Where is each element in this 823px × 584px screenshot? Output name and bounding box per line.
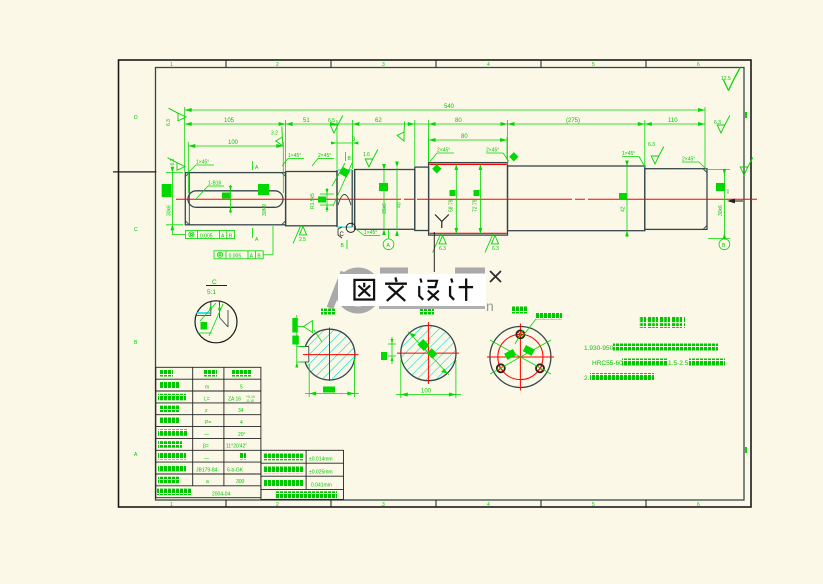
svg-text:3: 3 [382, 502, 385, 508]
watermark text: she [419, 279, 439, 301]
B-B red crosshair [397, 352, 459, 354]
view I hole top [516, 330, 524, 338]
shaft groove section S3 [336, 170, 338, 227]
roughness flag at 540 dim start [169, 108, 187, 121]
roughness check right top [717, 116, 730, 134]
svg-text:2: 2 [276, 502, 279, 508]
svg-text:5: 5 [592, 62, 595, 68]
svg-text:±0.014mm: ±0.014mm [309, 456, 333, 462]
black vertical watermark line [433, 232, 435, 272]
svg-text:540: 540 [444, 104, 455, 110]
chamfer label 1x45 S1 left [187, 165, 214, 174]
svg-text:4: 4 [487, 62, 490, 68]
chamfer 1x45 below groove [356, 229, 380, 236]
svg-text:42: 42 [621, 206, 627, 212]
svg-text:300: 300 [236, 479, 245, 485]
dimension 100 keyway [188, 144, 283, 148]
watermark close X [490, 271, 501, 282]
green cross lines at groove S3 [332, 163, 352, 206]
chamfer 2x45 gear right [486, 153, 509, 162]
shaft section S1 [185, 173, 285, 225]
S8 dia dim right [708, 169, 730, 239]
dimension chain row [185, 122, 705, 126]
svg-text:(275): (275) [566, 118, 580, 124]
svg-text:30k6: 30k6 [718, 205, 724, 216]
shaft section S4b [415, 167, 429, 230]
title tech requirements [639, 317, 685, 328]
svg-text:110: 110 [668, 118, 678, 124]
shaft section S6 [508, 166, 645, 231]
svg-text:5: 5 [592, 502, 595, 508]
zone numbers top [170, 62, 700, 68]
B-B bottom dim [396, 360, 461, 398]
svg-text:HRC55-60,: HRC55-60, [592, 360, 625, 367]
A-A label [321, 309, 335, 315]
chamfer label 1x45 S2 [282, 159, 304, 167]
svg-text:51: 51 [303, 118, 310, 124]
row 8 [158, 453, 186, 460]
green diamond mark gear right [509, 152, 518, 161]
keyway end label blob [258, 184, 269, 195]
tolerance frame 2 [214, 226, 273, 259]
svg-text:1×45°: 1×45° [196, 160, 209, 166]
svg-text:6.3: 6.3 [714, 120, 721, 126]
shaft section S2 [286, 172, 337, 226]
B-B left small marks [388, 337, 396, 364]
B-B circle hatched [401, 326, 455, 380]
roughness check S8 top [651, 147, 664, 165]
section tick A below shaft [252, 228, 254, 238]
svg-text:1×45°: 1×45° [622, 151, 635, 157]
sec row 3 [264, 480, 303, 487]
view I hole lower left [497, 364, 505, 372]
svg-text:5:1: 5:1 [207, 289, 216, 296]
rotated label phi30 left [162, 184, 172, 197]
section tick b below [346, 240, 348, 249]
svg-text:30k6: 30k6 [167, 205, 173, 216]
view I red crosshair [487, 356, 554, 358]
svg-text:β=: β= [203, 444, 209, 450]
view I leader 3-M10 [522, 319, 562, 337]
roughness check below S5 right [485, 234, 499, 253]
roughness check above S3 [365, 150, 378, 168]
A-A circle hatched [305, 330, 355, 380]
view I label [512, 307, 527, 314]
groove cyan bottom line [338, 226, 353, 228]
svg-text:62: 62 [375, 118, 382, 124]
zone tick marks bottom border [226, 500, 646, 508]
datum balloon circled [383, 239, 394, 250]
svg-text:80: 80 [455, 118, 462, 124]
dimension 3 groove width [331, 142, 358, 145]
groove cyan top line [338, 169, 353, 171]
svg-text:6.3: 6.3 [170, 158, 176, 165]
svg-text:P=: P= [205, 420, 211, 426]
chamfer 2x45 gear left [430, 153, 454, 162]
svg-text:—: — [204, 432, 209, 438]
svg-text:0.005: 0.005 [200, 233, 213, 239]
detail C circle marker [346, 223, 355, 232]
watermark white box [338, 274, 486, 306]
view I direction arrow black [727, 199, 743, 204]
keyway width dim inside S1 [229, 185, 232, 213]
chamfer 1x45 S6 right [622, 157, 645, 168]
table header row [159, 370, 173, 377]
S6 dia dim [625, 161, 629, 237]
detail C green marks [197, 303, 223, 336]
svg-text:58.79: 58.79 [449, 199, 455, 212]
tolerance frame 1 [172, 226, 234, 239]
svg-text:2004-04: 2004-04 [212, 491, 231, 497]
svg-text:2: 2 [276, 62, 279, 68]
zone letters left [134, 115, 138, 458]
svg-text:6.3: 6.3 [648, 142, 655, 148]
outer border frame [119, 60, 752, 507]
row 7 [158, 441, 182, 448]
svg-text:72.79: 72.79 [473, 199, 479, 212]
watermark text: ji [450, 279, 473, 301]
grey text bottom under box [379, 304, 485, 310]
svg-text:2×45°: 2×45° [486, 148, 499, 154]
detail C circle [195, 301, 237, 343]
svg-text:a: a [206, 479, 209, 485]
svg-text:-0.10: -0.10 [246, 399, 254, 403]
svg-text:1.930-950: 1.930-950 [584, 345, 614, 352]
svg-text:12.5: 12.5 [721, 76, 731, 82]
row 2 module [159, 382, 180, 389]
svg-text:80: 80 [461, 134, 468, 140]
green diamond mark gear left [432, 164, 441, 173]
view I outer circle [490, 327, 551, 388]
svg-text:L=: L= [204, 396, 210, 402]
centering mark left border [113, 171, 156, 173]
row 4 [159, 406, 180, 413]
view I hole lower right [536, 364, 544, 372]
B-B label [420, 309, 434, 315]
zone tick right border green [745, 447, 747, 453]
roughness check below S5 left [433, 234, 447, 253]
detail C cyan line [197, 312, 211, 314]
roughness check above S2 [271, 126, 291, 147]
svg-text:2×45°: 2×45° [682, 157, 695, 163]
svg-text:1×45°: 1×45° [288, 153, 301, 159]
grey glyph tops above box [380, 268, 408, 274]
row 9 [158, 465, 186, 472]
svg-text:34: 34 [238, 408, 244, 414]
A-A left dim with roughness [295, 315, 322, 368]
svg-text:—: — [204, 456, 209, 462]
A-A red crosshair [303, 354, 359, 356]
svg-text:6.3: 6.3 [439, 246, 446, 252]
svg-text:1: 1 [170, 62, 173, 68]
roughness flag at S4 dim top [393, 121, 412, 142]
svg-text:3.2: 3.2 [271, 131, 278, 137]
keyway dim text blob [222, 193, 230, 199]
shaft section S4 [355, 170, 415, 230]
row 5 [159, 418, 180, 425]
roughness at right of dim [740, 158, 753, 176]
row 6 [158, 429, 188, 436]
svg-text:m: m [205, 385, 209, 391]
row 3 [158, 394, 186, 401]
small vertical dim S2 near centerline [320, 188, 334, 212]
svg-text:100: 100 [228, 140, 239, 146]
svg-text:±0.025mm: ±0.025mm [309, 469, 333, 475]
grey logo slash [330, 272, 344, 308]
svg-text:6.3: 6.3 [492, 246, 499, 252]
svg-text:3: 3 [382, 62, 385, 68]
roughness check left top [168, 158, 186, 171]
svg-text:30N9: 30N9 [262, 204, 268, 216]
groove arc at centerline [338, 195, 351, 206]
svg-text:35k6: 35k6 [382, 203, 388, 214]
detail C groove profile [197, 302, 229, 328]
A-A keyway notch [300, 347, 309, 362]
svg-text:I: I [727, 189, 729, 196]
svg-text:0.005: 0.005 [229, 254, 242, 260]
view I angle labels [504, 349, 516, 360]
svg-text:R1.5k5: R1.5k5 [310, 193, 316, 209]
svg-text:2×45°: 2×45° [318, 153, 331, 159]
row 11 bottom [157, 489, 192, 496]
svg-text:1-B16: 1-B16 [208, 181, 222, 187]
S4 dia dim [382, 164, 386, 235]
view I green angle lines [490, 330, 551, 374]
black Y watermark fragment [435, 215, 449, 229]
svg-text:0.041mm: 0.041mm [311, 482, 332, 488]
grey logo circle [339, 271, 378, 310]
svg-text:1.5-2.5: 1.5-2.5 [668, 360, 689, 367]
sec row 2 [264, 467, 303, 474]
svg-text:n: n [486, 298, 494, 314]
watermark text: wen [385, 277, 407, 301]
dimension 540 overall [185, 108, 705, 112]
inner border frame [156, 68, 745, 501]
svg-text:2×45°: 2×45° [437, 148, 450, 154]
S4b dia dim [395, 162, 399, 237]
svg-text:1: 1 [170, 502, 173, 508]
roughness check big 12.5 top right corner [723, 68, 740, 91]
A-A bottom dim [305, 357, 359, 397]
gear dia dim 2 [479, 164, 483, 234]
watermark text: tu [354, 280, 374, 300]
keyway slot on S1 [188, 191, 283, 208]
chamfer label 2x45 S2 right [312, 159, 334, 167]
zone numbers bottom [170, 502, 700, 508]
sec row 1 [264, 454, 303, 461]
shaft gear section S5 [429, 163, 508, 236]
row 10 [158, 477, 179, 484]
svg-text:11°20'42'': 11°20'42'' [226, 444, 247, 450]
view I bolt circle red [498, 334, 543, 379]
hardened surface red line bottom of S5 [429, 232, 507, 234]
extension lines up from shaft [185, 107, 705, 193]
roughness check below S2 [293, 225, 307, 244]
svg-text:6-b-GK: 6-b-GK [227, 467, 244, 473]
roughness check above 51 dim [330, 116, 343, 134]
svg-text:4: 4 [240, 420, 243, 426]
svg-text:1×45°: 1×45° [364, 230, 377, 236]
svg-text:ZA 16: ZA 16 [228, 396, 241, 402]
svg-text:6: 6 [697, 62, 700, 68]
shaft section S8 [645, 169, 707, 230]
svg-text:2.5: 2.5 [299, 237, 306, 243]
svg-text:20°: 20° [238, 432, 246, 438]
svg-text:C: C [134, 227, 138, 233]
svg-text:D: D [134, 115, 138, 121]
red centerline [176, 198, 757, 200]
svg-text:JB179-84: JB179-84 [196, 467, 218, 473]
datum B balloon right [719, 239, 730, 250]
chamfer diagonals S1 [185, 173, 285, 225]
svg-text:1.6: 1.6 [363, 152, 370, 158]
chamfer diagonals S8 [703, 169, 707, 230]
table grid main [156, 367, 261, 497]
section tick A above shaft [252, 161, 254, 170]
gear dia dim 1 [455, 164, 459, 234]
hardened surface red line top of S5 [429, 163, 507, 165]
svg-text:5: 5 [240, 385, 243, 391]
dimension 80 gear width [429, 138, 507, 142]
svg-text:6: 6 [697, 502, 700, 508]
svg-text:105: 105 [224, 118, 235, 124]
section tick B above shaft [345, 152, 347, 161]
dia dim line left of S1 [166, 167, 183, 231]
svg-text:4: 4 [487, 502, 490, 508]
keyway label 1-B16 [196, 186, 224, 199]
chamfer 2x45 S8 right [682, 162, 706, 169]
sec bottom merged row [276, 491, 337, 498]
svg-text:C: C [212, 279, 217, 286]
svg-text:2.: 2. [584, 375, 590, 382]
svg-text:6.3: 6.3 [166, 119, 172, 126]
zone tick marks top border [226, 60, 646, 68]
B-B diagonal dim [408, 332, 449, 376]
svg-text:100: 100 [421, 389, 432, 395]
